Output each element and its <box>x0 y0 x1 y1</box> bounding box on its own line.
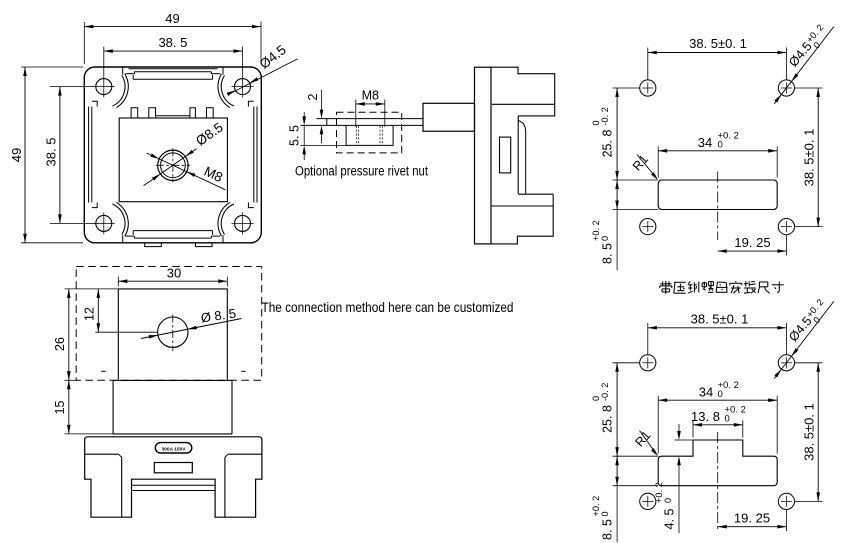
pattern2 slot with top notch (34 wide, 13.8 notch) <box>658 440 777 486</box>
svg-text:0: 0 <box>600 236 610 241</box>
front view corner boss arcs around holes (double wall) <box>112 75 125 106</box>
bottom view crossbar between legs <box>132 484 216 486</box>
pattern2 slot vertical centerline <box>717 432 719 531</box>
svg-text:0: 0 <box>718 389 723 400</box>
front view bottom-right mounting hole (d4.5) <box>235 215 251 231</box>
svg-text:30: 30 <box>167 266 181 281</box>
front view wide middle tab line <box>156 115 190 117</box>
pattern1 d4.5 +0.2/0 leader <box>774 27 834 104</box>
pattern2 dim 19.25 bottom <box>718 526 787 528</box>
dim 26 bottom view <box>68 289 70 380</box>
svg-text:M8: M8 <box>202 164 225 186</box>
dim 49 left of front view <box>24 67 26 243</box>
svg-text:34: 34 <box>699 384 713 399</box>
pattern2 d4.5 +0.2/0 leader <box>774 301 834 378</box>
svg-text:38. 5: 38. 5 <box>44 138 59 167</box>
dim 12 bottom view <box>97 289 99 332</box>
svg-text:2: 2 <box>306 93 320 100</box>
front view top-left mounting hole (d4.5) <box>96 79 112 95</box>
svg-text:Optional pressure rivet nut: Optional pressure rivet nut <box>295 164 428 180</box>
front view top-right mounting hole (d4.5) <box>235 79 251 95</box>
svg-text:38. 5±0. 1: 38. 5±0. 1 <box>802 129 817 187</box>
svg-text:0: 0 <box>725 414 730 425</box>
svg-text:49: 49 <box>9 148 24 162</box>
svg-text:0: 0 <box>600 511 610 516</box>
svg-text:0: 0 <box>663 498 673 503</box>
pattern1 dim 38.5+-0.1 top <box>648 52 787 54</box>
pattern1 slot (34 x 8.5, R1 corners) <box>658 180 777 210</box>
bottom view hole d8.5 <box>158 317 188 347</box>
svg-text:34: 34 <box>698 135 712 150</box>
side view front boss bar <box>423 103 475 131</box>
rivet nut flange plate (2mm) <box>317 118 423 120</box>
pattern2 dim 25.8 0/-0.2 left <box>616 363 618 456</box>
bottom view connector block (30 wide) <box>118 289 227 380</box>
svg-text:R1: R1 <box>630 152 651 173</box>
svg-text:15: 15 <box>53 401 67 415</box>
leader d8.5 bottom view hole <box>141 319 242 339</box>
front view right channel end steps <box>248 101 253 106</box>
svg-text:8. 5: 8. 5 <box>601 243 615 264</box>
pattern2 corner holes d4.5 <box>640 355 656 371</box>
bottom view leg top shoulders <box>85 453 119 455</box>
svg-text:-0. 2: -0. 2 <box>600 383 610 401</box>
leader M8 for central hole <box>147 153 226 190</box>
rivet nut optional dashed box <box>337 112 402 153</box>
svg-text:19. 25: 19. 25 <box>734 235 770 250</box>
leader d4.5 to front top-right hole <box>231 59 298 94</box>
pattern1 dim 34 +0.2/0 <box>658 150 777 152</box>
svg-text:Ø4.5: Ø4.5 <box>257 42 289 72</box>
svg-text:38. 5±0. 1: 38. 5±0. 1 <box>689 36 747 51</box>
front view bottom feet tabs <box>145 243 162 247</box>
bottom view middle block (15 tall) <box>113 380 232 434</box>
side view main plate <box>475 67 492 244</box>
pattern1 dim 25.8 0/-0.2 left <box>616 88 618 180</box>
dim 38.5 left of front view <box>59 87 61 224</box>
svg-text:26: 26 <box>53 337 67 351</box>
dim M8 on rivet nut <box>356 103 385 105</box>
bottom view dashed customizable box <box>76 267 262 381</box>
front view outer body (49x49 square, rounded corners) <box>84 67 261 243</box>
svg-text:Ø 8. 5: Ø 8. 5 <box>200 306 237 326</box>
pattern1 dim 8.5 +0.2/0 left-bottom <box>616 180 618 210</box>
leader d8.5 for central hole <box>144 149 197 186</box>
pattern1 dim 19.25 bottom <box>718 250 787 252</box>
front view central hole crosshair centerlines <box>156 164 190 166</box>
pattern2 dim 4.5 +0.2/0 (notch height) <box>678 424 680 437</box>
bottom view small corner marks <box>101 370 106 372</box>
svg-text:38. 5±0. 1: 38. 5±0. 1 <box>691 311 749 326</box>
svg-text:38. 5: 38. 5 <box>158 35 187 50</box>
front view central rectangle (30 wide) <box>119 118 227 202</box>
front view bottom-left mounting hole (d4.5) <box>96 215 112 231</box>
svg-text:8. 5: 8. 5 <box>601 519 615 540</box>
front view bottom cap strip with end steps (mirror of top) <box>134 237 211 239</box>
side view top wing profile <box>491 67 555 116</box>
pattern2 dim 8.5 +0.2/0 left-bottom <box>616 456 618 486</box>
chinese title glyph strokes (drawn) <box>660 281 784 294</box>
front view cavity bottom line <box>133 230 212 232</box>
pattern2 dim 38.5+-0.1 top <box>648 327 787 329</box>
svg-text:5. 5: 5. 5 <box>288 125 302 146</box>
rivet nut thread dashed lines <box>355 126 357 145</box>
pattern1 dim 38.5+-0.1 right <box>817 88 819 227</box>
svg-text:-0. 2: -0. 2 <box>600 107 610 125</box>
pattern1 corner holes d4.5 <box>640 80 656 96</box>
svg-text:M8: M8 <box>362 89 379 103</box>
dim 5.5 (nut height) <box>303 112 305 122</box>
dim 2 (flange thickness) <box>321 90 323 115</box>
svg-text:Ø8.5: Ø8.5 <box>193 120 226 149</box>
rivet nut body (5.5mm) <box>346 125 393 145</box>
svg-text:4. 5: 4. 5 <box>663 509 677 530</box>
dim 30 bottom view <box>118 280 227 282</box>
front view right side channel <box>256 107 258 203</box>
dim 15 bottom view <box>68 380 70 434</box>
front view central hole M8/d8.5 concentric circles <box>158 150 188 180</box>
side view slot rectangle <box>500 137 511 173</box>
svg-text:49: 49 <box>165 11 179 26</box>
front view left channel end steps <box>92 101 97 106</box>
pattern1 slot vertical centerline <box>717 172 719 241</box>
pattern2 dim 13.8 +0.2/0 <box>693 424 743 426</box>
svg-text:12: 12 <box>83 307 97 321</box>
front view top edge stubs <box>122 67 124 75</box>
svg-text:25. 8: 25. 8 <box>601 405 615 433</box>
front view top cap strip with end steps <box>129 68 218 70</box>
svg-text:25. 8: 25. 8 <box>601 130 615 158</box>
side view bottom wing profile <box>518 193 553 195</box>
front view small tabs above central rectangle <box>131 108 138 118</box>
bottom view lower housing body <box>85 437 262 517</box>
front view left side channel <box>88 107 90 203</box>
pattern2 dim 38.5+-0.1 right <box>817 363 819 502</box>
svg-text:13. 8: 13. 8 <box>691 409 720 424</box>
bottom view oval brand label <box>155 443 192 453</box>
front view cavity top line <box>133 78 212 80</box>
dim 49 top of front view <box>84 26 261 28</box>
dim 38.5 top of front view <box>104 50 243 52</box>
svg-text:0: 0 <box>718 140 723 151</box>
pattern2 dim 34 +0.2/0 <box>658 399 777 401</box>
svg-text:19. 25: 19. 25 <box>734 511 770 526</box>
svg-text:The connection method here can: The connection method here can be custom… <box>262 300 514 315</box>
front view bottom edge stubs <box>122 235 124 243</box>
svg-text:38. 5±0. 1: 38. 5±0. 1 <box>802 403 817 461</box>
svg-text:300A 150V: 300A 150V <box>162 446 187 452</box>
side view middle web verticals with fillet <box>517 116 519 194</box>
bottom view small rectangle port <box>154 463 192 473</box>
